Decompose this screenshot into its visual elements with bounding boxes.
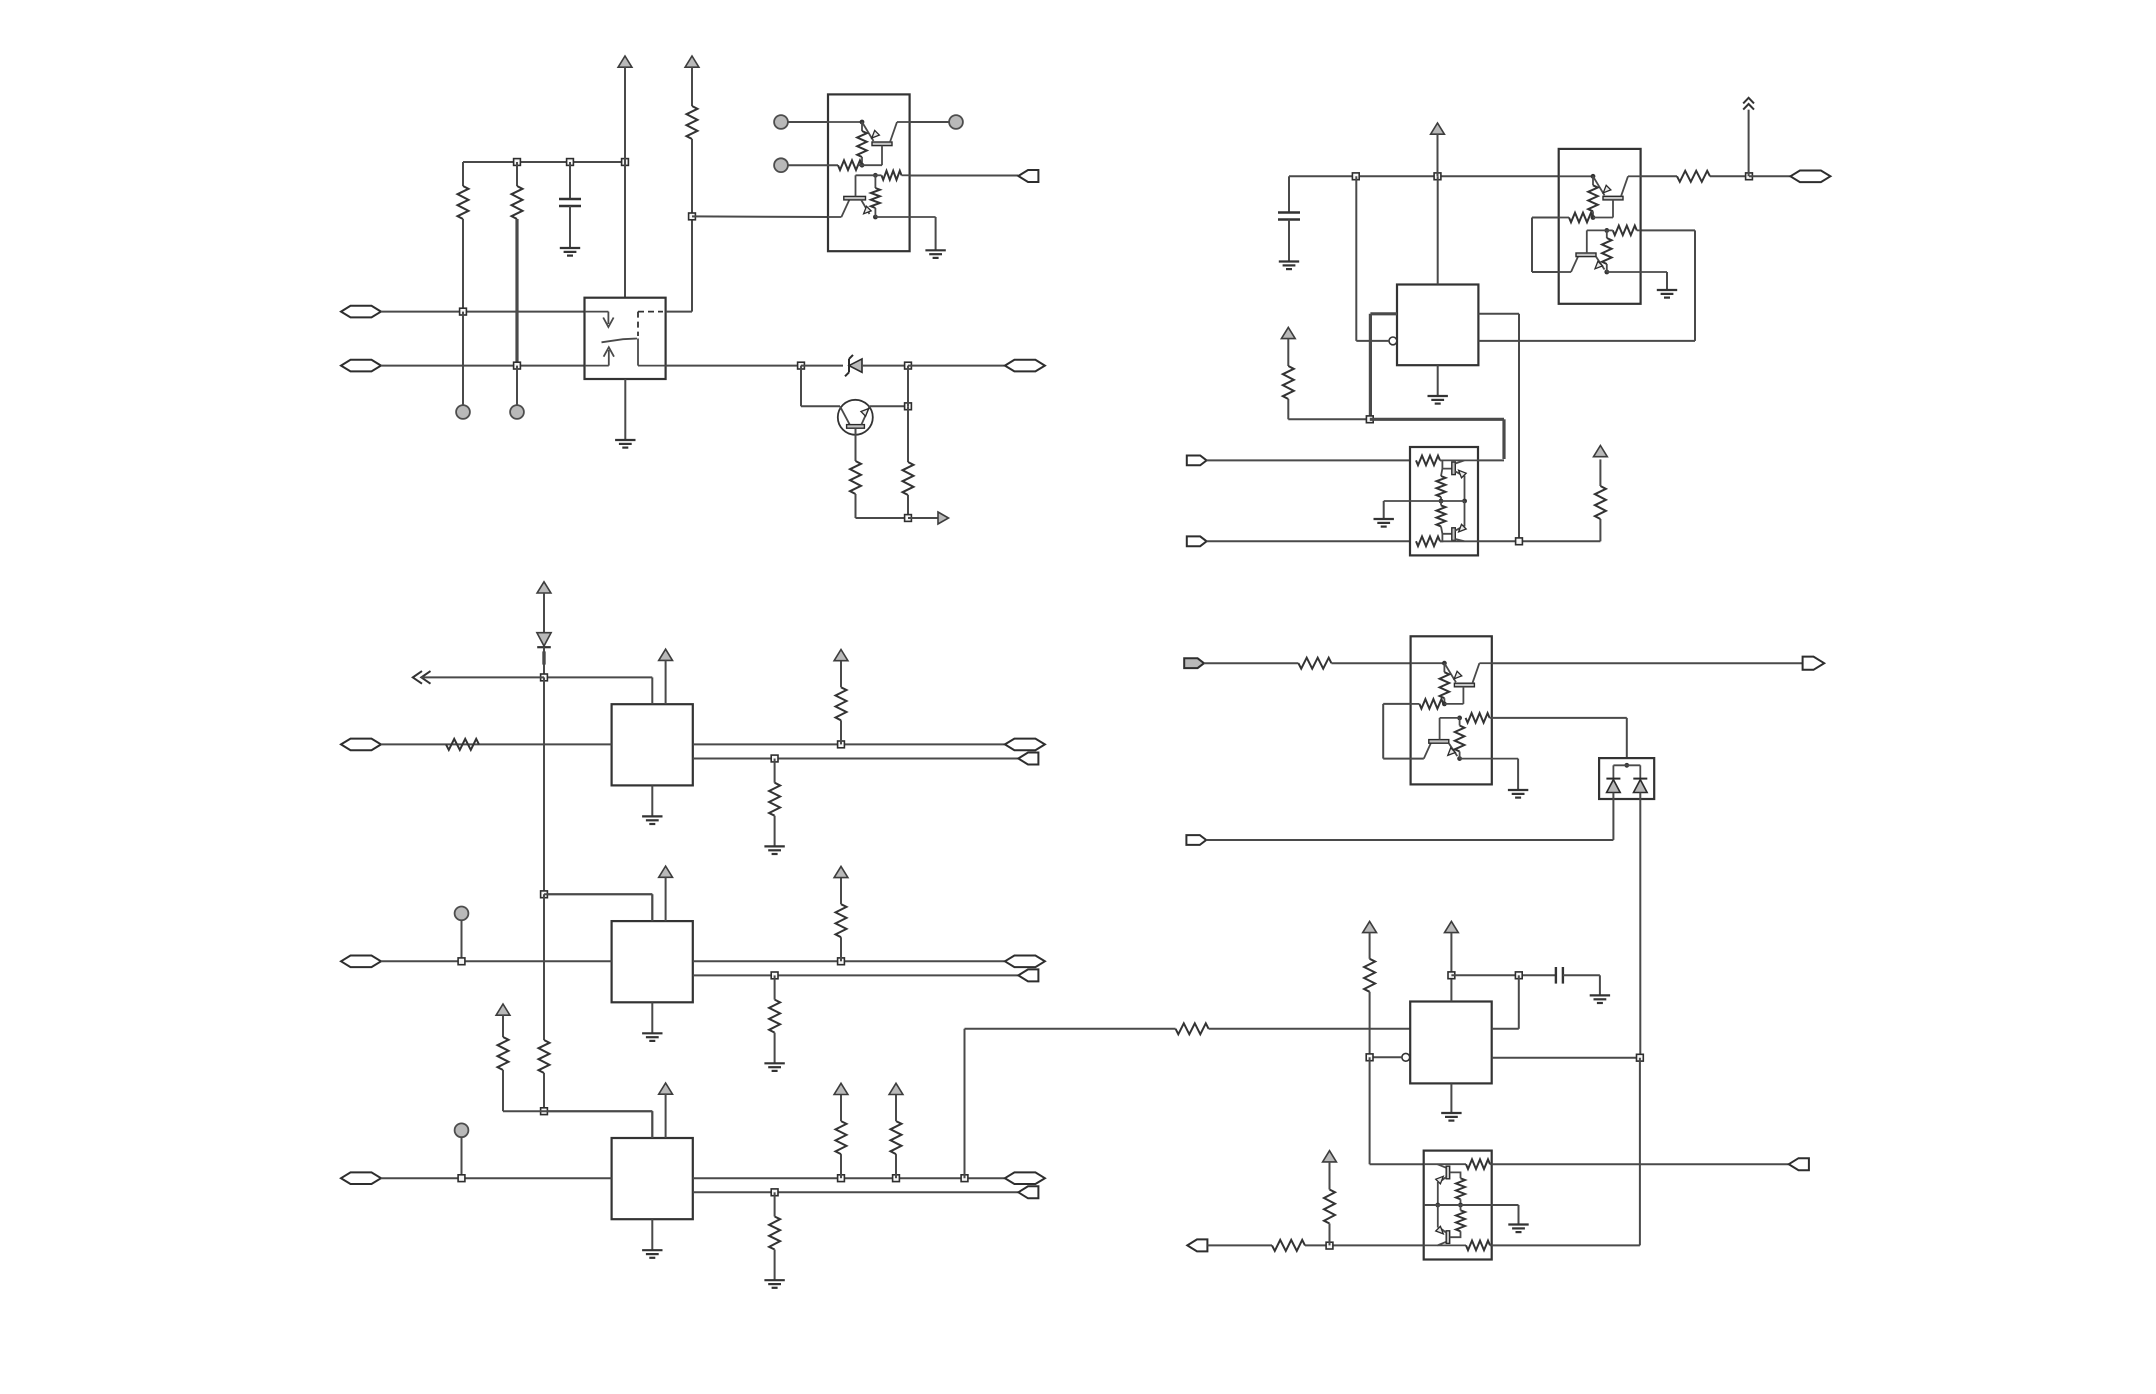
power VCC above R22 xyxy=(889,1083,903,1094)
connector IN2 (hexagon) xyxy=(341,360,381,372)
wire: Q5 collector up (thick continues) xyxy=(1478,459,1504,461)
connector INB (pentagon) xyxy=(1187,536,1207,546)
wire block2 top xyxy=(544,893,652,895)
connector OUT2 (hexagon) xyxy=(1005,360,1045,372)
resistor R21 pullup xyxy=(840,1154,842,1178)
IC U3 (square) xyxy=(1410,1002,1492,1084)
connector OUT hexagon xyxy=(1005,739,1045,751)
Q5 lower input resistor xyxy=(1416,537,1440,547)
ground below Q4 xyxy=(1657,290,1677,298)
Q1 resistor (base lower) xyxy=(882,171,902,180)
node: junction rail/C1 xyxy=(567,159,574,166)
power VCC + resistor R11 column xyxy=(1363,921,1377,932)
resistor R10 xyxy=(1176,1023,1209,1034)
transistor-pair IC Q7 xyxy=(1424,1151,1492,1260)
wire: output row2 xyxy=(693,1191,1019,1193)
left rail top: VCC arrow xyxy=(537,582,551,593)
diode D2b xyxy=(1639,765,1641,778)
power VCC pullup xyxy=(834,1083,848,1094)
connector OUT hexagon xyxy=(1005,956,1045,968)
Q5 resistor (B-E upper) xyxy=(1441,469,1442,476)
wire: rail down to block2 xyxy=(543,677,545,894)
power VCC + resistor R21 column xyxy=(496,1004,510,1015)
Q7 lower input resistor xyxy=(1466,1241,1490,1251)
node: junction R3/boxA rail xyxy=(689,213,696,220)
power VCC + resistor R13 column xyxy=(1323,1151,1337,1162)
Q6 resistor (base lower) xyxy=(1466,713,1490,723)
wire: Q6 output long to edge xyxy=(1492,662,1803,664)
node: VCC stem/cap tee xyxy=(1448,972,1455,979)
node: junction R22 xyxy=(893,1175,900,1182)
wire: input xyxy=(381,960,612,962)
node: thick net junction xyxy=(1366,416,1373,423)
ground below Q1 xyxy=(925,250,945,258)
pin circle Q1-2 xyxy=(774,158,788,172)
chevron up (page ref) xyxy=(1743,98,1754,110)
Q5 lower transistor xyxy=(1440,534,1452,542)
wire: top-left pin xyxy=(544,893,652,895)
node: cap riser junction xyxy=(1515,972,1522,979)
wire: top-right rail xyxy=(1289,175,1559,177)
Q6 resistor (base upper) xyxy=(1419,699,1443,709)
node: junction rail/VCC stem xyxy=(622,159,629,166)
node: rail/U2 bubble riser xyxy=(1352,173,1359,180)
Q6 resistor (B-E lower) xyxy=(1457,716,1462,721)
capacitor C2 xyxy=(1288,176,1290,212)
wire block3 top xyxy=(544,1110,652,1112)
power VCC arrow (top-left) xyxy=(618,56,632,67)
ground below Q6 xyxy=(1508,790,1528,798)
connector OUT4 (right edge) xyxy=(1803,657,1825,670)
wire: riser to U3 right pin xyxy=(1518,975,1520,1029)
wire IN1 to switch xyxy=(381,311,585,313)
connector OUT flag xyxy=(1018,753,1038,765)
wire to zener xyxy=(801,365,843,367)
node: zener right xyxy=(905,362,912,369)
wire: Q2 emitter down xyxy=(855,428,857,461)
wire: Q4 emitter to ground xyxy=(1607,271,1667,273)
ground below U5 xyxy=(651,1002,653,1033)
power VCC arrow above R3 xyxy=(685,56,699,67)
Q7 resistor (B-E upper) xyxy=(1450,1172,1461,1178)
Q4 lower transistor xyxy=(1559,271,1571,273)
wire: top-left rail xyxy=(463,161,625,163)
ground below C1 xyxy=(560,248,580,256)
wire rail xyxy=(543,647,545,677)
node: pullup junction xyxy=(838,958,845,965)
probe circle P1 xyxy=(462,312,464,405)
node: base/riser junction xyxy=(905,403,912,410)
wire: Q5 out to VCC pullup xyxy=(1478,540,1600,542)
wire down to Q7 xyxy=(1369,1057,1371,1164)
ground below switch xyxy=(624,379,626,440)
wire to arrow xyxy=(908,517,938,519)
Q5 upper transistor xyxy=(1440,460,1452,468)
node: rail/block1 wire xyxy=(541,674,548,681)
Q7 mid wire to ground xyxy=(1424,1204,1519,1206)
Q4 upper transistor xyxy=(1559,175,1593,177)
connector IN5 (hexagon) xyxy=(341,1172,381,1184)
ground right of Q7 xyxy=(1508,1225,1528,1233)
Q5 resistor (B-E lower) xyxy=(1440,501,1442,505)
IC U5 (square) xyxy=(612,921,693,1002)
node: rail/U2 top pin xyxy=(1434,173,1441,180)
wire: Q1 emitter to ground xyxy=(875,216,935,218)
wire INA to Q5 xyxy=(1207,459,1410,461)
power VCC above U3 xyxy=(1445,921,1459,932)
wire: Q1 output to connector xyxy=(902,174,910,176)
wire: top-left pin xyxy=(544,676,652,678)
wire: switch out1 up to node xyxy=(666,311,692,313)
node: rail/block3 wire xyxy=(541,1108,548,1115)
connector INE (flag) xyxy=(1187,1239,1207,1251)
inverter bubble U3 xyxy=(1402,1053,1410,1061)
connector IN4 (hexagon) xyxy=(341,956,381,968)
wire: node to transistor-pair Q1 bottom rail xyxy=(692,215,828,218)
IC U6 (square) xyxy=(612,1138,693,1219)
pin circle Q1-3 xyxy=(949,115,963,129)
power VCC pullup xyxy=(834,650,848,661)
power VCC U6 xyxy=(659,1083,673,1094)
ground below U6 xyxy=(651,1219,653,1250)
wire: Q7 top out to edge xyxy=(1492,1163,1789,1165)
connector IND (pentagon) xyxy=(1186,835,1206,845)
chevron left (page ref) xyxy=(413,671,431,684)
node: junction riser xyxy=(961,1175,968,1182)
Q4 resistor (base upper) xyxy=(1569,213,1593,223)
wire: top-left pin xyxy=(544,1110,652,1112)
ground below U4 xyxy=(651,785,653,816)
wire: output row1 xyxy=(693,960,1005,962)
wire: input xyxy=(381,743,612,745)
Q4 resistor (B-E lower) xyxy=(1604,228,1609,233)
ground below C2 xyxy=(1279,262,1299,270)
wire R9 to Q6 xyxy=(1331,662,1410,664)
resistor R15 pullup xyxy=(840,720,842,744)
wire: output row1 xyxy=(693,1177,1005,1179)
wire: cap branch xyxy=(1451,974,1556,976)
wire: U3 out to D2b riser xyxy=(1492,1057,1640,1059)
power VCC arrow above U2 xyxy=(1431,123,1445,134)
connector small gray arrow xyxy=(938,512,949,524)
connector OUT hexagon xyxy=(1005,1172,1045,1184)
wire INB to Q5 xyxy=(1207,540,1410,542)
wire: left loop xyxy=(1532,217,1559,219)
IC U4 (square) xyxy=(612,704,693,785)
wire U2 top pin xyxy=(1437,176,1439,284)
connector IN3 (hexagon) xyxy=(341,739,381,751)
probe circle xyxy=(455,907,469,921)
connector OUT3 (hexagon) xyxy=(1790,171,1830,183)
node: junction R13 column xyxy=(1326,1242,1333,1249)
Q1 resistor (base upper) xyxy=(838,160,862,170)
Q1 resistor (B-E lower) xyxy=(873,173,878,178)
node: junction D2b riser xyxy=(1637,1054,1644,1061)
wire: output row2 xyxy=(693,974,1019,976)
transistor Q2 (PNP in circle) xyxy=(838,400,873,435)
ground right of C3 xyxy=(1590,995,1610,1003)
analog switch U1 xyxy=(585,298,666,379)
wire: riser to bottom-right section xyxy=(964,1029,966,1178)
wire to OUT hexagon xyxy=(1749,175,1790,177)
wire: Q6 base-res to diode box xyxy=(1492,717,1627,719)
resistor R8 pullup xyxy=(1599,519,1601,541)
resistor R20 in rail xyxy=(543,894,545,1040)
Q1 resistor (B-E upper) xyxy=(861,122,863,131)
power VCC above R8 xyxy=(1594,446,1608,457)
Q7 resistor (B-E lower) xyxy=(1450,1231,1461,1237)
probe circle xyxy=(455,1123,469,1137)
resistor R9 xyxy=(1298,658,1331,669)
wire: U2 lower right pin loop xyxy=(1478,340,1695,342)
transistor-pair IC Q1 (dual digital transistor) xyxy=(828,94,910,251)
resistor R4 xyxy=(850,461,861,494)
wire: U2 right pin riser xyxy=(1478,313,1519,315)
wire: output row1 xyxy=(693,743,1005,745)
wire: long input rail xyxy=(965,1028,1176,1030)
transistor-pair IC Q5 xyxy=(1410,447,1478,555)
transistor-pair IC Q6 xyxy=(1411,636,1492,784)
resistor R19 pulldown xyxy=(774,975,776,999)
wire: Q6 left loop xyxy=(1383,703,1410,705)
wire: U2 left pin (thick net) xyxy=(1370,312,1397,315)
Q6 lower transistor xyxy=(1424,743,1431,758)
wire INC xyxy=(1204,662,1298,664)
Q6 resistor (B-E upper) xyxy=(1443,663,1445,672)
resistor R5 xyxy=(907,406,909,462)
resistor R12 xyxy=(1272,1240,1305,1251)
resistor R16 pulldown xyxy=(774,759,776,783)
resistor R7 (output) xyxy=(1641,175,1677,177)
Q4 resistor (base lower) xyxy=(1613,226,1637,236)
node: pulldown junction xyxy=(771,972,778,979)
wire: IN2 net through xyxy=(666,365,801,367)
wire to OUT hexagon xyxy=(908,365,1005,367)
Q6 upper transistor xyxy=(1411,662,1445,664)
Q4 resistor (B-E upper) xyxy=(1592,176,1594,185)
node: pullup junction xyxy=(838,1175,845,1182)
connector IN1 (hexagon) xyxy=(341,306,381,318)
resistor R22 pulldown xyxy=(774,1192,776,1216)
transistor-pair IC Q4 xyxy=(1559,149,1641,304)
ground below pulldown xyxy=(764,1063,784,1071)
Q5 upper input resistor xyxy=(1416,456,1440,466)
node: bottom junction xyxy=(905,515,912,522)
connector OUT flag xyxy=(1018,969,1038,981)
node: zener left xyxy=(798,362,805,369)
wire: bubble pin to rail riser xyxy=(1356,340,1389,342)
capacitor C3 xyxy=(1556,967,1563,984)
wire riser down xyxy=(1639,1058,1641,1246)
resistor R3 xyxy=(687,106,698,139)
connector INC (gray pentagon) xyxy=(1184,658,1204,668)
wire riser xyxy=(907,366,909,407)
node: rail/block2 wire xyxy=(541,891,548,898)
wire INE xyxy=(1207,1244,1272,1246)
node: pulldown junction xyxy=(771,1189,778,1196)
Q1 upper transistor xyxy=(828,121,862,123)
resistor R14 input xyxy=(446,739,479,750)
power VCC + resistor R6 column xyxy=(1281,327,1295,338)
wire IN2 to switch xyxy=(381,365,585,367)
connector OUT flag xyxy=(1018,1186,1038,1198)
zener diode D1 xyxy=(845,355,853,376)
ground below pulldown xyxy=(764,846,784,854)
Q1 lower transistor xyxy=(828,216,841,218)
diode D2a xyxy=(1612,765,1614,778)
wire: VCC stem down to analog switch xyxy=(624,162,626,298)
connector OUT (flag) xyxy=(1018,170,1038,182)
node: junction IN2/R2 xyxy=(514,362,521,369)
ground below pulldown xyxy=(764,1280,784,1288)
Q7 upper transistor xyxy=(1424,1163,1466,1165)
node: probe junction xyxy=(458,1175,465,1182)
node: pullup junction xyxy=(838,741,845,748)
power VCC U4 xyxy=(659,649,673,660)
dual diode D2 xyxy=(1599,758,1654,799)
Q7 upper input resistor xyxy=(1466,1159,1490,1169)
connector INA (pentagon) xyxy=(1187,456,1207,466)
ground left of Q5 xyxy=(1374,519,1394,527)
pin circle Q1-1 xyxy=(774,115,788,129)
node: probe junction xyxy=(458,958,465,965)
wire bubble to junction xyxy=(1370,1056,1402,1058)
resistor R18 pullup xyxy=(840,937,842,961)
wire: Q6 emitter to ground xyxy=(1460,758,1519,760)
connector OUT5 (flag) xyxy=(1789,1158,1809,1170)
wire: thick net to Q3 collector xyxy=(1370,418,1504,421)
wire D2b down xyxy=(1639,793,1641,1058)
ground below U3 xyxy=(1450,1083,1452,1113)
node: junction R11/bubble xyxy=(1366,1054,1373,1061)
power VCC U5 xyxy=(659,866,673,877)
Q5 mid wire + ground xyxy=(1384,500,1465,502)
node: pulldown junction xyxy=(771,755,778,762)
ground below U2 xyxy=(1437,365,1439,396)
wire: input xyxy=(381,1177,612,1179)
inverter bubble U2 xyxy=(1389,337,1397,345)
power VCC pullup xyxy=(834,866,848,877)
resistor R1 xyxy=(462,162,464,186)
node: junction with U2 riser xyxy=(1516,538,1523,545)
node: junction IN1/R1 xyxy=(460,308,467,315)
wire IND to D2a xyxy=(1206,839,1613,841)
probe circle P2 xyxy=(516,366,518,405)
wire: output row2 xyxy=(693,758,1019,760)
wire: base branch xyxy=(800,366,802,407)
node: output junction xyxy=(1746,173,1753,180)
Q7 lower transistor xyxy=(1424,1244,1466,1246)
IC U2 (square) xyxy=(1397,285,1478,366)
node: junction rail/R2 xyxy=(514,159,521,166)
node: diode T junction xyxy=(1624,763,1629,768)
diode-style down arrow symbol xyxy=(537,633,551,646)
wire: Q7 bottom rail to riser xyxy=(1492,1244,1640,1246)
